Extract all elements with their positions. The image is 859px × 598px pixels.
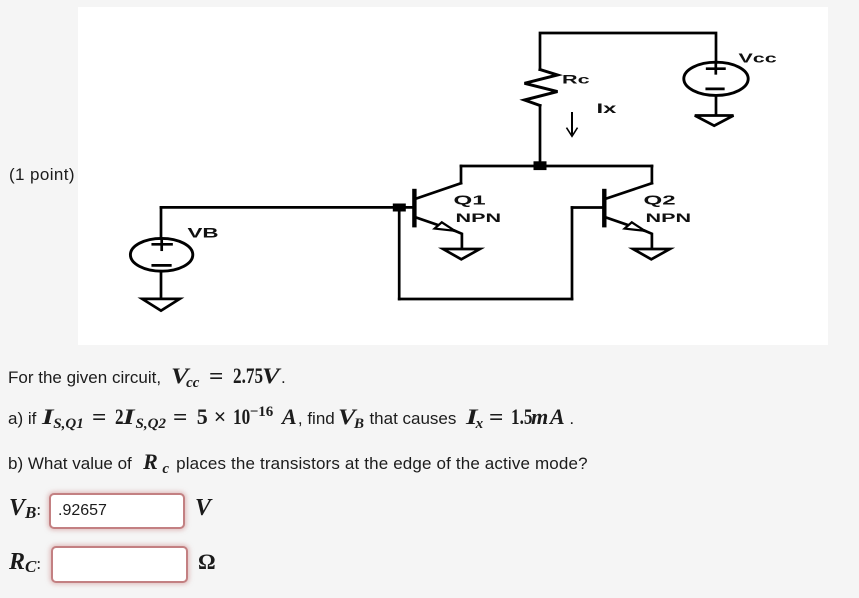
answer input RC — [51, 546, 188, 583]
wire Q1 collector drop — [460, 166, 463, 183]
wire collector rail — [461, 165, 652, 168]
transistor Q2 — [604, 183, 652, 248]
wire top rail (resistor top to Vcc top) — [540, 33, 716, 70]
wire bottom run — [399, 298, 572, 301]
ground Q2 emitter — [633, 249, 670, 259]
svg-text:Q2: Q2 — [644, 194, 676, 208]
transistor Q1 — [414, 183, 462, 248]
unit Ohm — [198, 549, 216, 575]
wire VB to Q1 base — [161, 206, 414, 209]
source Vcc — [684, 62, 748, 115]
svg-text:Vcc: Vcc — [739, 51, 777, 66]
svg-text:VB: VB — [188, 225, 219, 241]
ground Q1 emitter — [443, 249, 480, 259]
answer label RC — [9, 549, 41, 577]
wire Q2 base stub — [572, 206, 604, 209]
wire resistor bottom to collector node — [539, 106, 542, 167]
source VB — [130, 207, 192, 299]
resistor Rc — [525, 70, 558, 106]
unit V — [195, 495, 211, 522]
wire Q1 base drop — [398, 211, 401, 299]
node Q1 base junction (filled square) — [393, 204, 406, 212]
ground Vcc — [695, 116, 734, 126]
question line 3 — [8, 449, 588, 478]
svg-text:NPN: NPN — [646, 211, 692, 225]
wire up to Q2 base — [571, 208, 574, 300]
answer input VB — [49, 493, 185, 529]
question line 2 — [8, 404, 574, 433]
svg-text:Ix: Ix — [597, 101, 617, 117]
(1 point) label — [9, 165, 75, 185]
white image panel — [78, 7, 828, 345]
answer label VB — [9, 495, 41, 523]
current arrow Ix — [567, 113, 577, 136]
svg-text:Q1: Q1 — [454, 194, 486, 208]
wire Q2 collector drop — [651, 166, 654, 183]
question line 1 — [8, 363, 286, 392]
svg-text:Rc: Rc — [562, 73, 590, 87]
svg-text:NPN: NPN — [456, 211, 502, 225]
node collector junction (filled square) — [534, 161, 547, 170]
ground VB — [142, 299, 180, 311]
